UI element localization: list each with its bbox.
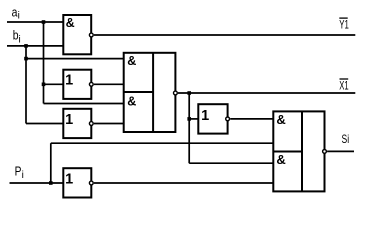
wire a branch to G2 input bbox=[44, 83, 64, 85]
svg-text:Si: Si bbox=[342, 132, 350, 146]
junction X1 node bbox=[187, 91, 191, 95]
inverter G3 (1) bbox=[63, 109, 91, 138]
svg-text:P: P bbox=[15, 163, 22, 178]
NAND gate G1 (&) bbox=[63, 15, 91, 54]
inverter G4 (1) bbox=[63, 168, 91, 197]
wire U2 output to Si bbox=[327, 150, 354, 152]
wire p vertical up bbox=[50, 143, 52, 183]
output label X1 with overline bbox=[339, 78, 349, 92]
svg-text:&: & bbox=[127, 54, 136, 68]
input label P_i bbox=[15, 163, 24, 181]
junction X1 branch to G5 bbox=[187, 117, 191, 121]
svg-text:i: i bbox=[19, 34, 21, 45]
wire a_i input bbox=[7, 21, 63, 23]
inversion bubble G2 output bbox=[89, 82, 93, 86]
output label Y1 with overline bbox=[339, 18, 349, 32]
svg-text:&: & bbox=[66, 16, 75, 30]
inversion bubble U2 output bbox=[323, 150, 327, 154]
wire X1 to U2 lower input bbox=[189, 162, 273, 164]
wire b vertical bbox=[25, 46, 27, 124]
svg-text:1: 1 bbox=[65, 72, 73, 88]
input label a_i bbox=[12, 4, 20, 21]
wire G4 output to U2 lower input bbox=[94, 182, 273, 184]
junction a_i / a vertical bbox=[42, 20, 46, 24]
inversion bubble G1 output bbox=[89, 33, 93, 37]
junction a branch to G2 bbox=[42, 83, 46, 87]
svg-text:&: & bbox=[127, 94, 136, 108]
inversion bubble U1 output bbox=[174, 91, 178, 95]
junction p_i bbox=[49, 181, 53, 185]
svg-text:&: & bbox=[276, 112, 285, 127]
wire a to U1 lower input bbox=[44, 103, 124, 105]
AND-OR-invert gate U1 bbox=[124, 53, 176, 132]
wire X1 branch to G5 input bbox=[189, 118, 198, 120]
svg-text:&: & bbox=[276, 152, 285, 167]
wire X1 vertical bbox=[188, 93, 190, 163]
svg-text:Y1: Y1 bbox=[339, 18, 349, 32]
inversion bubble G4 output bbox=[89, 181, 93, 185]
wire G3 output to U1 bbox=[94, 123, 124, 125]
wire G1 output to Y1 bbox=[94, 34, 355, 36]
wire G5 output to U2 upper input bbox=[230, 118, 273, 120]
svg-text:i: i bbox=[22, 170, 24, 181]
inverter G2 (1) bbox=[63, 70, 91, 99]
input label b_i bbox=[13, 28, 21, 46]
inversion bubble G5 output bbox=[226, 117, 230, 121]
junction b branch bbox=[24, 57, 28, 61]
wire a vertical bbox=[43, 22, 45, 104]
svg-text:i: i bbox=[18, 11, 20, 22]
wire p_i input bbox=[10, 182, 64, 184]
wire b branch to U1 upper input bbox=[26, 58, 124, 60]
svg-text:1: 1 bbox=[65, 112, 73, 128]
svg-text:1: 1 bbox=[201, 108, 209, 124]
junction b_i / b vertical bbox=[24, 44, 28, 48]
wire G2 output to U1 bbox=[94, 83, 124, 85]
wire b to G3 input bbox=[26, 123, 63, 125]
inverter G5 (1) bbox=[198, 104, 227, 133]
AND-OR-invert gate U2 bbox=[273, 111, 324, 191]
wire U1 output to X1 bbox=[178, 92, 355, 94]
svg-text:X1: X1 bbox=[339, 78, 349, 92]
svg-text:1: 1 bbox=[65, 171, 73, 187]
wire p branch to U2 upper input bbox=[51, 142, 273, 144]
wire b_i input bbox=[7, 45, 63, 47]
inversion bubble G3 output bbox=[89, 122, 93, 126]
